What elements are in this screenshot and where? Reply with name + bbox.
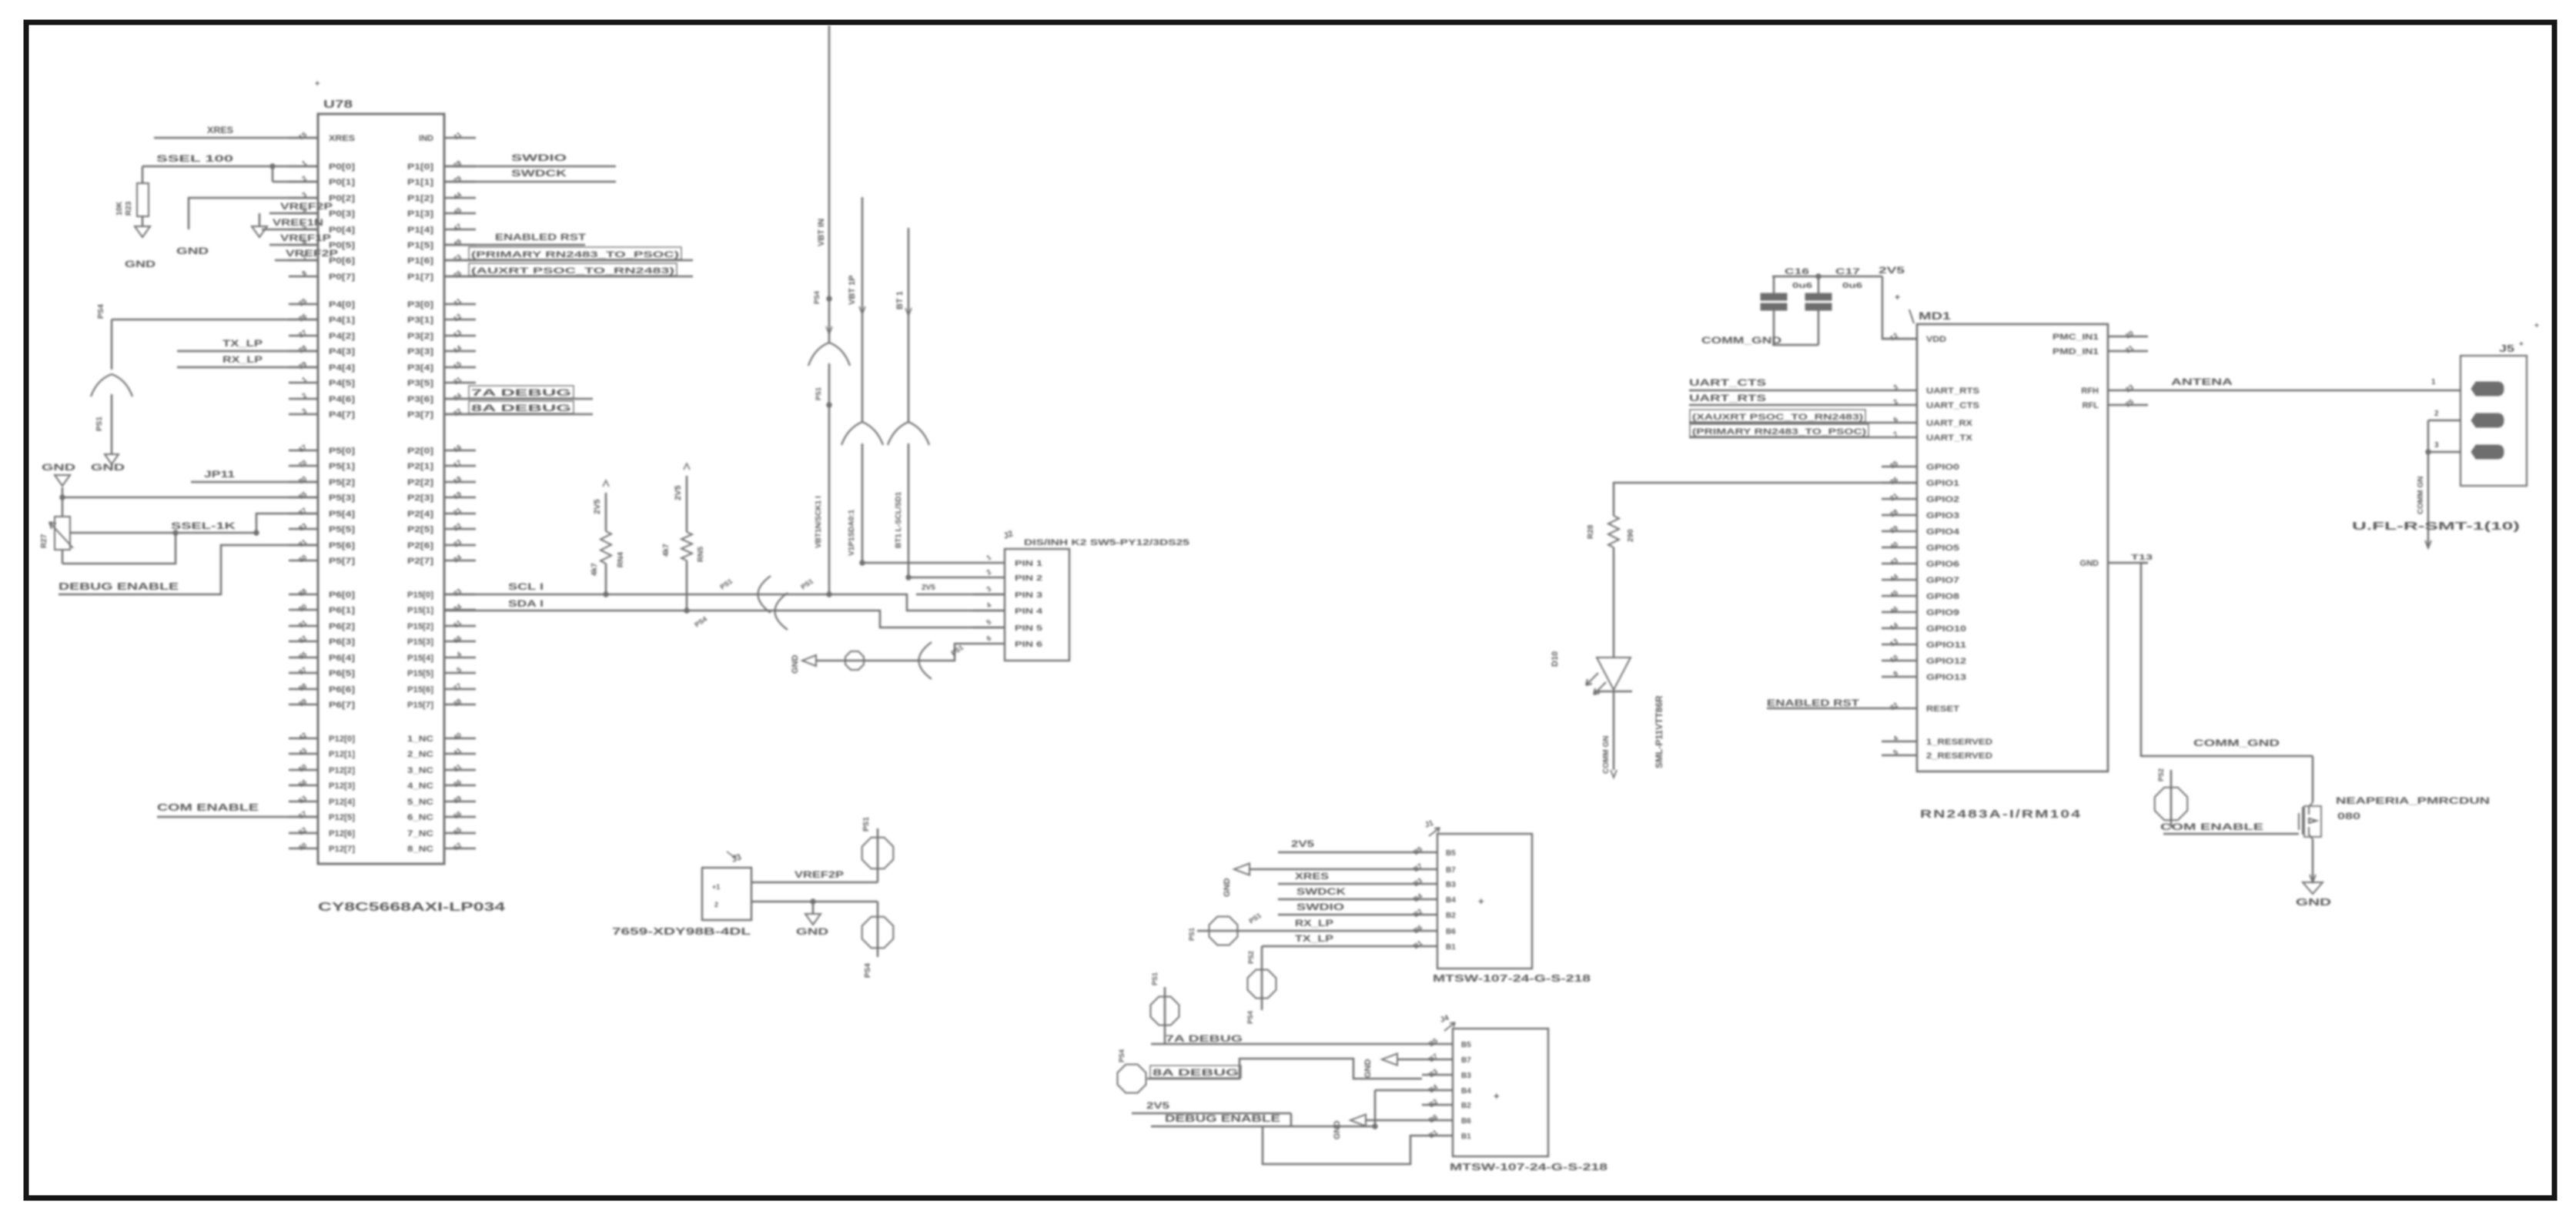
IC U78 CY8C5668AXI-LP034 body bbox=[315, 79, 444, 864]
svg-text:46: 46 bbox=[1889, 604, 1899, 615]
svg-text:SWDCK: SWDCK bbox=[1296, 886, 1346, 897]
svg-text:2V5: 2V5 bbox=[1146, 1100, 1169, 1111]
svg-text:1: 1 bbox=[985, 554, 992, 562]
svg-text:R27: R27 bbox=[40, 534, 49, 548]
svg-text:U.FL-R-SMT-1(10): U.FL-R-SMT-1(10) bbox=[2352, 520, 2520, 533]
capacitor C17 bbox=[1805, 267, 1863, 345]
svg-text:34: 34 bbox=[452, 391, 463, 402]
svg-text:SML-P11VTT86R: SML-P11VTT86R bbox=[1654, 695, 1664, 768]
svg-text:+1: +1 bbox=[712, 883, 720, 891]
boxed net (XAUXRT PSOC_TO_RN2483) to IC2 bbox=[1689, 410, 1882, 423]
net 2V5 to J4 bbox=[1132, 1100, 1291, 1126]
svg-text:XRES: XRES bbox=[207, 125, 233, 136]
net VREF2P (row 277) with GND drop bbox=[176, 201, 333, 256]
svg-text:2V5: 2V5 bbox=[674, 485, 683, 500]
svg-text:T13: T13 bbox=[2131, 554, 2153, 562]
svg-text:21: 21 bbox=[1889, 491, 1899, 502]
svg-text:PIN 6: PIN 6 bbox=[1015, 641, 1043, 649]
svg-text:44: 44 bbox=[1889, 572, 1899, 583]
svg-text:32: 32 bbox=[452, 407, 463, 417]
svg-text:P1[4]: P1[4] bbox=[407, 226, 433, 235]
svg-text:DEBUG ENABLE: DEBUG ENABLE bbox=[59, 581, 179, 592]
svg-text:21: 21 bbox=[2124, 343, 2135, 354]
svg-text:87: 87 bbox=[297, 506, 308, 517]
svg-text:PS1: PS1 bbox=[799, 577, 815, 591]
svg-text:B4: B4 bbox=[1427, 1082, 1439, 1094]
svg-text:67: 67 bbox=[297, 443, 308, 453]
svg-text:P12[0]: P12[0] bbox=[329, 734, 355, 744]
svg-text:13: 13 bbox=[1889, 637, 1899, 647]
svg-text:B3: B3 bbox=[1427, 1067, 1439, 1079]
svg-text:UART_RTS: UART_RTS bbox=[1689, 393, 1766, 403]
svg-text:UART_RTS: UART_RTS bbox=[1926, 386, 1979, 396]
svg-text:17: 17 bbox=[452, 458, 463, 469]
svg-text:P15[5]: P15[5] bbox=[407, 669, 433, 678]
net 2V5 to J1 bbox=[1278, 838, 1407, 852]
svg-text:VREF2P: VREF2P bbox=[280, 201, 333, 212]
svg-text:B7: B7 bbox=[1446, 866, 1456, 875]
svg-text:66: 66 bbox=[452, 809, 463, 820]
wire XRES (U78 pin 15) bbox=[154, 125, 318, 138]
svg-text:53: 53 bbox=[297, 794, 308, 805]
svg-text:ANTENA: ANTENA bbox=[2171, 376, 2233, 387]
capacitor C16 bbox=[1761, 267, 1813, 345]
svg-text:27: 27 bbox=[297, 328, 308, 339]
svg-text:GND: GND bbox=[42, 462, 76, 473]
net SWDCK to J1 bbox=[1278, 886, 1407, 899]
svg-text:99: 99 bbox=[297, 697, 308, 708]
svg-text:4k7: 4k7 bbox=[662, 544, 671, 557]
net COMM GND below LED bbox=[1602, 691, 1617, 778]
svg-text:PIN 3: PIN 3 bbox=[1015, 591, 1043, 600]
svg-text:22: 22 bbox=[452, 521, 463, 532]
svg-text:UART_RX: UART_RX bbox=[1926, 419, 1973, 428]
svg-text:P5[0]: P5[0] bbox=[329, 447, 355, 456]
svg-text:GPIO2: GPIO2 bbox=[1926, 495, 1959, 504]
svg-text:080: 080 bbox=[2337, 811, 2360, 821]
svg-text:P2[6]: P2[6] bbox=[407, 541, 433, 550]
svg-text:+: + bbox=[2519, 340, 2524, 349]
svg-text:PS1: PS1 bbox=[718, 577, 734, 591]
svg-text:47: 47 bbox=[452, 222, 463, 233]
svg-text:92: 92 bbox=[297, 634, 308, 644]
boxed net (AUXRT PSOC_TO_RN2483) bbox=[444, 263, 693, 276]
svg-text:PMD_IN1: PMD_IN1 bbox=[2052, 347, 2099, 356]
svg-text:VDD: VDD bbox=[1926, 335, 1946, 344]
svg-text:2V5: 2V5 bbox=[922, 584, 935, 592]
svg-text:0u6: 0u6 bbox=[1842, 282, 1863, 290]
svg-text:P2[2]: P2[2] bbox=[407, 478, 433, 487]
svg-text:P4[0]: P4[0] bbox=[329, 300, 355, 310]
svg-text:VBT1N/SCK1 I: VBT1N/SCK1 I bbox=[815, 496, 823, 548]
svg-text:PS1: PS1 bbox=[862, 817, 871, 832]
header J4 pin stubs and names bbox=[1422, 1036, 1471, 1141]
svg-text:61: 61 bbox=[452, 618, 463, 629]
svg-text:GPIO13: GPIO13 bbox=[1926, 673, 1966, 682]
svg-text:P5[5]: P5[5] bbox=[329, 525, 355, 534]
net VREF2P (row 338) bbox=[275, 248, 338, 260]
svg-text:GPIO1: GPIO1 bbox=[1926, 479, 1959, 488]
svg-text:P5[1]: P5[1] bbox=[329, 462, 355, 471]
svg-text:P5[6]: P5[6] bbox=[329, 541, 355, 550]
svg-text:26: 26 bbox=[297, 312, 308, 323]
svg-text:GPIO5: GPIO5 bbox=[1926, 544, 1959, 553]
net GND from IC2 to COMM_GND bbox=[2131, 554, 2313, 756]
svg-text:P12[5]: P12[5] bbox=[329, 813, 355, 822]
svg-text:1: 1 bbox=[2431, 378, 2436, 386]
svg-text:29: 29 bbox=[297, 360, 308, 370]
svg-text:25: 25 bbox=[2124, 397, 2135, 408]
svg-text:P6[7]: P6[7] bbox=[329, 701, 355, 710]
svg-text:R23: R23 bbox=[125, 201, 133, 216]
svg-text:(PRIMARY RN2483_TO_PSOC): (PRIMARY RN2483_TO_PSOC) bbox=[471, 250, 680, 259]
svg-text:2: 2 bbox=[2434, 410, 2439, 418]
U78 left pin stubs with pin numbers bbox=[289, 130, 318, 852]
svg-text:P3[1]: P3[1] bbox=[407, 316, 433, 325]
svg-text:2_RESERVED: 2_RESERVED bbox=[1926, 751, 1992, 761]
svg-text:0u6: 0u6 bbox=[1792, 282, 1813, 290]
svg-text:ENABLED RST: ENABLED RST bbox=[1767, 698, 1860, 708]
GND flag (middle) bbox=[791, 655, 816, 674]
svg-text:65: 65 bbox=[452, 825, 463, 836]
LED D10 SML-P11VTT86R bbox=[1551, 547, 1664, 768]
svg-text:SCL I: SCL I bbox=[508, 581, 544, 592]
svg-text:RN2483A-I/RM104: RN2483A-I/RM104 bbox=[1920, 808, 2082, 821]
svg-text:33: 33 bbox=[452, 587, 463, 597]
svg-text:P4[6]: P4[6] bbox=[329, 395, 355, 404]
svg-text:RN5: RN5 bbox=[697, 547, 705, 562]
svg-text:JP11: JP11 bbox=[204, 469, 235, 480]
svg-text:4: 4 bbox=[985, 601, 992, 610]
GND flag J1 row2 bbox=[1223, 864, 1407, 898]
switch pin stubs 1-6 bbox=[973, 554, 1043, 649]
svg-text:2_NC: 2_NC bbox=[407, 750, 433, 759]
svg-text:B1: B1 bbox=[1461, 1133, 1471, 1141]
net SWDIO bbox=[444, 152, 616, 166]
boxed net 8A DEBUG bbox=[444, 401, 593, 414]
svg-text:78: 78 bbox=[452, 159, 463, 169]
svg-text:J2: J2 bbox=[1002, 529, 1015, 540]
test point below (octagon O2) bbox=[862, 902, 894, 978]
svg-text:25: 25 bbox=[297, 296, 308, 307]
svg-text:98: 98 bbox=[297, 681, 308, 692]
header J1 pin stubs and names bbox=[1407, 845, 1456, 952]
svg-text:P15[4]: P15[4] bbox=[407, 654, 433, 663]
IC2 left pin stubs, numbers and names bbox=[1882, 331, 1992, 761]
svg-text:40: 40 bbox=[452, 731, 463, 741]
svg-text:7659-XDY98B-4DL: 7659-XDY98B-4DL bbox=[612, 925, 751, 937]
svg-text:B6: B6 bbox=[1412, 923, 1423, 935]
svg-text:B5: B5 bbox=[1446, 849, 1456, 858]
potentiometer R27 bbox=[40, 497, 73, 564]
net SCL I wire bbox=[444, 576, 1005, 613]
net SSEL with resistor R23 to GND bbox=[115, 153, 318, 269]
svg-text:SWDCK: SWDCK bbox=[511, 168, 567, 179]
svg-text:70: 70 bbox=[297, 458, 308, 469]
net UART_CTS to IC2 bbox=[1689, 377, 1882, 390]
svg-text:B6: B6 bbox=[1461, 1117, 1471, 1126]
svg-text:GPIO3: GPIO3 bbox=[1926, 511, 1959, 520]
svg-text:3: 3 bbox=[2434, 441, 2439, 450]
svg-text:66: 66 bbox=[452, 634, 463, 644]
svg-text:2V5: 2V5 bbox=[593, 499, 602, 514]
svg-text:60: 60 bbox=[297, 553, 308, 564]
svg-text:P6[4]: P6[4] bbox=[329, 654, 355, 663]
net PS4 wire with clamp symbol and GND (row 415) bbox=[91, 304, 318, 473]
svg-text:12: 12 bbox=[452, 312, 463, 323]
net RX_LP to J1 through test point O3 bbox=[1188, 912, 1407, 945]
svg-text:29: 29 bbox=[1889, 524, 1899, 534]
boxed net (PRIMARY RN2483_TO_PSOC) to IC2 bbox=[1689, 424, 1882, 437]
net TX_LP to J1 with test point O4 below bbox=[1246, 933, 1407, 1024]
svg-text:P5[7]: P5[7] bbox=[329, 557, 355, 566]
svg-text:11: 11 bbox=[453, 296, 463, 307]
svg-text:MD1: MD1 bbox=[1919, 310, 1951, 322]
svg-text:6_NC: 6_NC bbox=[407, 813, 433, 822]
svg-text:B1: B1 bbox=[1427, 1128, 1439, 1139]
svg-text:PS2: PS2 bbox=[1247, 951, 1255, 964]
svg-text:RX_LP: RX_LP bbox=[1295, 918, 1333, 929]
svg-text:P4[3]: P4[3] bbox=[329, 347, 355, 356]
net VREF1P (row 318) bbox=[269, 233, 331, 245]
svg-text:41: 41 bbox=[452, 746, 463, 757]
svg-text:BT1 L-SCL/SD1: BT1 L-SCL/SD1 bbox=[895, 491, 903, 548]
svg-text:ENABLED RST: ENABLED RST bbox=[495, 232, 587, 243]
wire J3 pin2 with GND bbox=[751, 899, 878, 937]
svg-text:P15[0]: P15[0] bbox=[407, 591, 433, 600]
net COM ENABLE (left) bbox=[157, 801, 318, 817]
net COM ENABLE with test point O7 bbox=[2155, 768, 2299, 834]
svg-text:P5[4]: P5[4] bbox=[329, 510, 355, 519]
svg-text:RESET: RESET bbox=[1926, 704, 1959, 714]
svg-text:P4[2]: P4[2] bbox=[329, 332, 355, 341]
svg-text:GPIO6: GPIO6 bbox=[1926, 560, 1959, 569]
net 8A DEBUG to J4 with test point O6 bbox=[1118, 1049, 1423, 1093]
svg-text:B6: B6 bbox=[1427, 1113, 1439, 1124]
svg-text:2V5: 2V5 bbox=[1291, 838, 1314, 849]
svg-text:P15[6]: P15[6] bbox=[407, 685, 433, 694]
svg-text:B2: B2 bbox=[1446, 912, 1456, 920]
svg-text:1_RESERVED: 1_RESERVED bbox=[1926, 738, 1992, 747]
svg-text:19: 19 bbox=[452, 490, 463, 500]
svg-text:8A DEBUG: 8A DEBUG bbox=[1153, 1067, 1239, 1078]
U78 pin name texts bbox=[329, 134, 433, 854]
svg-text:SDA I: SDA I bbox=[508, 598, 544, 609]
svg-text:PIN 4: PIN 4 bbox=[1015, 607, 1043, 616]
svg-text:P4[1]: P4[1] bbox=[329, 316, 355, 325]
svg-text:91: 91 bbox=[297, 618, 308, 629]
svg-text:13: 13 bbox=[452, 328, 463, 339]
svg-text:7A DEBUG: 7A DEBUG bbox=[471, 387, 571, 398]
svg-text:UART_CTS: UART_CTS bbox=[1689, 377, 1766, 388]
svg-text:UART_TX: UART_TX bbox=[1926, 433, 1973, 443]
svg-text:45: 45 bbox=[452, 206, 463, 216]
svg-text:(XAUXRT PSOC_TO_RN2483): (XAUXRT PSOC_TO_RN2483) bbox=[1692, 413, 1863, 422]
svg-text:P2[0]: P2[0] bbox=[407, 447, 433, 456]
wire GPIO1 to resistor R28 bbox=[1614, 483, 1917, 516]
svg-text:PS1: PS1 bbox=[949, 644, 965, 658]
svg-text:GND: GND bbox=[91, 462, 125, 473]
svg-text:8_NC: 8_NC bbox=[407, 845, 433, 854]
svg-text:COMM_GND: COMM_GND bbox=[2193, 738, 2280, 748]
svg-text:43: 43 bbox=[297, 746, 308, 757]
svg-text:DEBUG ENABLE: DEBUG ENABLE bbox=[1165, 1113, 1280, 1124]
svg-text:+: + bbox=[315, 79, 319, 89]
boxed net 7A DEBUG bbox=[444, 386, 593, 399]
svg-text:XRES: XRES bbox=[1295, 871, 1329, 882]
wire U78 pin3 step bbox=[189, 198, 318, 229]
transistor Q1 NEAPERIA_PMRCDUN bbox=[2299, 756, 2490, 839]
svg-text:GPIO10: GPIO10 bbox=[1926, 624, 1966, 634]
svg-text:P1[1]: P1[1] bbox=[407, 178, 433, 187]
svg-text:P0[0]: P0[0] bbox=[329, 162, 355, 172]
GND symbol below Q1 bbox=[2296, 839, 2331, 908]
svg-text:J3: J3 bbox=[731, 852, 743, 864]
net COMM GND at J5 bbox=[2417, 420, 2431, 548]
svg-text:20: 20 bbox=[2124, 329, 2135, 340]
svg-text:P3[6]: P3[6] bbox=[407, 395, 433, 404]
svg-text:GND: GND bbox=[796, 926, 829, 937]
svg-text:PS4: PS4 bbox=[1118, 1049, 1126, 1062]
svg-text:P12[2]: P12[2] bbox=[329, 766, 355, 775]
svg-text:GND: GND bbox=[2296, 896, 2331, 908]
svg-text:P12[6]: P12[6] bbox=[329, 829, 355, 838]
svg-text:CY8C5668AXI-LP034: CY8C5668AXI-LP034 bbox=[318, 901, 505, 914]
svg-text:73: 73 bbox=[452, 253, 463, 263]
svg-text:79: 79 bbox=[452, 174, 463, 185]
vertical net VBT 1P (line B) bbox=[841, 197, 883, 563]
svg-text:49: 49 bbox=[452, 237, 463, 248]
svg-text:B3: B3 bbox=[1412, 876, 1423, 888]
svg-text:B4: B4 bbox=[1446, 896, 1456, 905]
svg-text:50: 50 bbox=[297, 762, 308, 773]
svg-text:B2: B2 bbox=[1412, 907, 1423, 919]
svg-text:P15[7]: P15[7] bbox=[407, 701, 433, 710]
svg-text:PS1: PS1 bbox=[1188, 928, 1196, 941]
net RX_LP (row 477) bbox=[177, 354, 318, 367]
svg-text:57: 57 bbox=[297, 809, 308, 820]
svg-text:IND: IND bbox=[419, 134, 433, 143]
svg-text:PMC_IN1: PMC_IN1 bbox=[2052, 333, 2099, 342]
svg-text:23: 23 bbox=[2124, 383, 2135, 393]
svg-text:SSEL 100: SSEL 100 bbox=[156, 153, 234, 164]
svg-text:P12[4]: P12[4] bbox=[329, 798, 355, 807]
svg-text:PS4: PS4 bbox=[813, 291, 821, 304]
svg-text:GPIO0: GPIO0 bbox=[1926, 463, 1959, 472]
svg-text:GPIO7: GPIO7 bbox=[1926, 576, 1959, 585]
wire switch pin1 to VBT 1P bbox=[860, 560, 973, 565]
svg-text:VBT 1P: VBT 1P bbox=[848, 275, 857, 305]
net VREF1N (row 298) bbox=[262, 217, 323, 229]
svg-text:B7: B7 bbox=[1461, 1056, 1471, 1065]
svg-text:VBT IN: VBT IN bbox=[817, 219, 826, 246]
svg-text:14: 14 bbox=[452, 343, 463, 354]
svg-text:PS1: PS1 bbox=[815, 387, 822, 400]
svg-text:39: 39 bbox=[452, 794, 463, 805]
svg-text:P1[0]: P1[0] bbox=[407, 162, 433, 172]
header J4 body bbox=[1439, 1014, 1548, 1156]
svg-text:2: 2 bbox=[985, 568, 992, 577]
svg-text:TX_LP: TX_LP bbox=[222, 338, 263, 349]
connector J3 body bbox=[702, 852, 751, 920]
switch J2 DIS/INH K2 SW5 body bbox=[1002, 529, 1189, 661]
svg-text:PS1: PS1 bbox=[1151, 972, 1159, 985]
J5 pin3 stub bbox=[2426, 441, 2461, 454]
svg-text:SWDIO: SWDIO bbox=[511, 152, 567, 163]
resistor RN5 4k7 pull-up bbox=[662, 463, 705, 611]
resistor RN4 4k7 pull-up bbox=[590, 480, 625, 594]
svg-text:P15[3]: P15[3] bbox=[407, 637, 433, 647]
svg-text:80: 80 bbox=[297, 474, 308, 485]
svg-text:PS2: PS2 bbox=[2157, 768, 2165, 781]
svg-text:2V5: 2V5 bbox=[1878, 265, 1905, 276]
svg-text:P12[7]: P12[7] bbox=[329, 845, 355, 854]
svg-text:1_NC: 1_NC bbox=[407, 734, 433, 744]
svg-text:P4[7]: P4[7] bbox=[329, 410, 355, 420]
svg-text:P0[7]: P0[7] bbox=[329, 273, 355, 282]
svg-text:GND: GND bbox=[1363, 1059, 1373, 1079]
svg-text:PIN 2: PIN 2 bbox=[1015, 574, 1043, 583]
net JP11 (row 626) bbox=[191, 469, 318, 482]
svg-text:23: 23 bbox=[452, 537, 463, 548]
net UART_RTS to IC2 bbox=[1689, 393, 1882, 405]
svg-text:PS4: PS4 bbox=[1246, 1011, 1254, 1024]
svg-text:B2: B2 bbox=[1427, 1097, 1439, 1109]
svg-text:4k7: 4k7 bbox=[590, 563, 599, 576]
svg-text:35: 35 bbox=[1889, 459, 1899, 470]
svg-text:81: 81 bbox=[297, 537, 308, 548]
svg-text:44: 44 bbox=[452, 190, 463, 201]
svg-text:VREF2P: VREF2P bbox=[286, 248, 338, 259]
svg-text:5_NC: 5_NC bbox=[407, 798, 433, 807]
svg-text:83: 83 bbox=[297, 521, 308, 532]
svg-text:36: 36 bbox=[452, 778, 463, 788]
svg-text:COM ENABLE: COM ENABLE bbox=[2160, 821, 2263, 832]
svg-text:P4[5]: P4[5] bbox=[329, 379, 355, 388]
svg-text:B7: B7 bbox=[1412, 862, 1423, 873]
svg-text:B2: B2 bbox=[1461, 1102, 1471, 1110]
svg-text:B4: B4 bbox=[1461, 1087, 1471, 1096]
svg-text:10: 10 bbox=[1889, 653, 1899, 664]
svg-text:COMM GN: COMM GN bbox=[1602, 736, 1611, 774]
svg-text:P6[2]: P6[2] bbox=[329, 622, 355, 631]
svg-text:31: 31 bbox=[452, 762, 463, 773]
svg-text:31: 31 bbox=[452, 375, 463, 386]
svg-text:PS4: PS4 bbox=[97, 304, 105, 319]
svg-text:43: 43 bbox=[1889, 556, 1899, 567]
svg-text:97: 97 bbox=[297, 665, 308, 676]
svg-text:B7: B7 bbox=[1427, 1052, 1439, 1063]
svg-text:P12[1]: P12[1] bbox=[329, 750, 355, 759]
svg-text:RX_LP: RX_LP bbox=[222, 354, 263, 365]
net TX_LP (row 456) bbox=[177, 338, 318, 351]
svg-text:32: 32 bbox=[1889, 701, 1899, 711]
svg-text:P0[1]: P0[1] bbox=[329, 178, 355, 187]
U78 right pin stubs with pin numbers bbox=[444, 130, 476, 852]
svg-text:B5: B5 bbox=[1412, 845, 1423, 856]
svg-text:28: 28 bbox=[297, 343, 308, 354]
svg-text:15: 15 bbox=[297, 130, 308, 141]
svg-text:3: 3 bbox=[985, 585, 992, 594]
svg-text:P0[2]: P0[2] bbox=[329, 194, 355, 203]
svg-text:36: 36 bbox=[1889, 475, 1899, 486]
svg-text:B6: B6 bbox=[1446, 928, 1456, 936]
svg-text:GPIO8: GPIO8 bbox=[1926, 592, 1959, 601]
svg-text:30: 30 bbox=[297, 841, 308, 852]
svg-text:P6[5]: P6[5] bbox=[329, 669, 355, 678]
svg-text:B3: B3 bbox=[1461, 1072, 1471, 1080]
boxed net (PRIMARY RN2483_TO_PSOC) bbox=[444, 247, 693, 260]
